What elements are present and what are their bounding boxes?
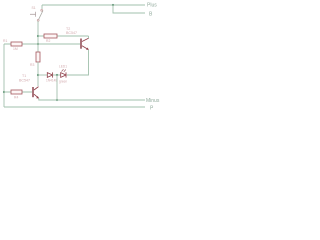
svg-text:Minus: Minus: [146, 98, 160, 104]
wire from R3 down to T1 collector: [37, 62, 39, 86]
wire bottom outer rail to label: [4, 106, 145, 108]
svg-text:S1: S1: [32, 6, 36, 10]
wire switch bottom pin down to resistor R3: [37, 21, 39, 52]
node junction at (38,44): [37, 43, 39, 45]
wire base row y=44 from left rail to T2 base: [4, 43, 80, 45]
node junction at top rail x=113: [112, 4, 114, 6]
svg-text:BC547: BC547: [19, 79, 30, 83]
svg-text:P: P: [150, 106, 154, 112]
transistor T1: [33, 87, 39, 99]
switch S1: [30, 6, 43, 21]
wire LED row left: [38, 74, 47, 76]
node junction at (4,92): [3, 91, 5, 93]
wire from junction down to Minus row: [56, 75, 58, 100]
svg-text:R3: R3: [30, 63, 34, 67]
wire R2 row to T2 collector: [38, 36, 89, 39]
wire between D1 and LED1: [53, 74, 61, 76]
wire switch top pin riser: [41, 5, 43, 9]
svg-text:T1: T1: [22, 74, 26, 78]
LED LED1: [61, 69, 66, 77]
svg-text:R1: R1: [3, 39, 7, 43]
svg-text:R4: R4: [14, 96, 18, 100]
svg-text:LED1: LED1: [59, 65, 67, 69]
svg-text:BC547: BC547: [66, 31, 77, 35]
node junction at (57,75): [56, 74, 58, 76]
wire left rail vertical: [3, 44, 5, 107]
resistor R2: [44, 34, 57, 38]
svg-text:B: B: [149, 12, 153, 18]
wire base row of T1: [4, 91, 32, 93]
transistor T2: [81, 38, 89, 50]
svg-text:R2: R2: [46, 39, 50, 43]
diode D1: [47, 72, 52, 77]
wire T2 emitter down to LED row: [67, 50, 89, 75]
resistor R1: [11, 42, 22, 46]
svg-text:1M: 1M: [13, 47, 18, 51]
node junction at (38,36): [37, 35, 39, 37]
node junction at (57,100): [56, 99, 58, 101]
svg-text:1N4148: 1N4148: [46, 79, 57, 83]
wire T1 emitter to Minus rail: [39, 98, 145, 100]
svg-text:green: green: [59, 80, 67, 84]
resistor R4: [11, 90, 22, 94]
node junction at (38,75): [37, 74, 39, 76]
svg-text:Plus: Plus: [147, 3, 157, 9]
wire top rail from switch to Plus label: [42, 4, 145, 6]
resistor R3 vertical: [36, 52, 40, 62]
wire drop to net B: [113, 5, 145, 13]
